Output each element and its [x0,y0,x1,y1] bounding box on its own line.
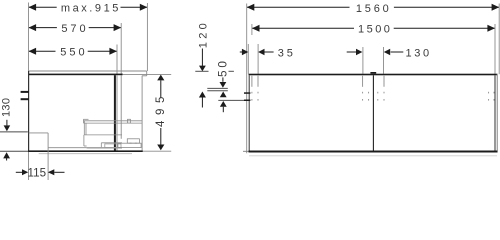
svg-text:570: 570 [61,23,88,35]
svg-text:130: 130 [406,48,432,60]
svg-text:1560: 1560 [356,3,392,15]
svg-text:50: 50 [216,58,230,77]
svg-text:35: 35 [278,48,296,60]
svg-text:max.915: max.915 [61,3,121,15]
svg-text:130: 130 [1,98,13,117]
svg-text:115: 115 [28,166,46,179]
svg-text:120: 120 [197,20,209,48]
svg-text:1500: 1500 [358,24,392,36]
svg-text:550: 550 [60,47,87,59]
svg-text:495: 495 [155,91,167,127]
